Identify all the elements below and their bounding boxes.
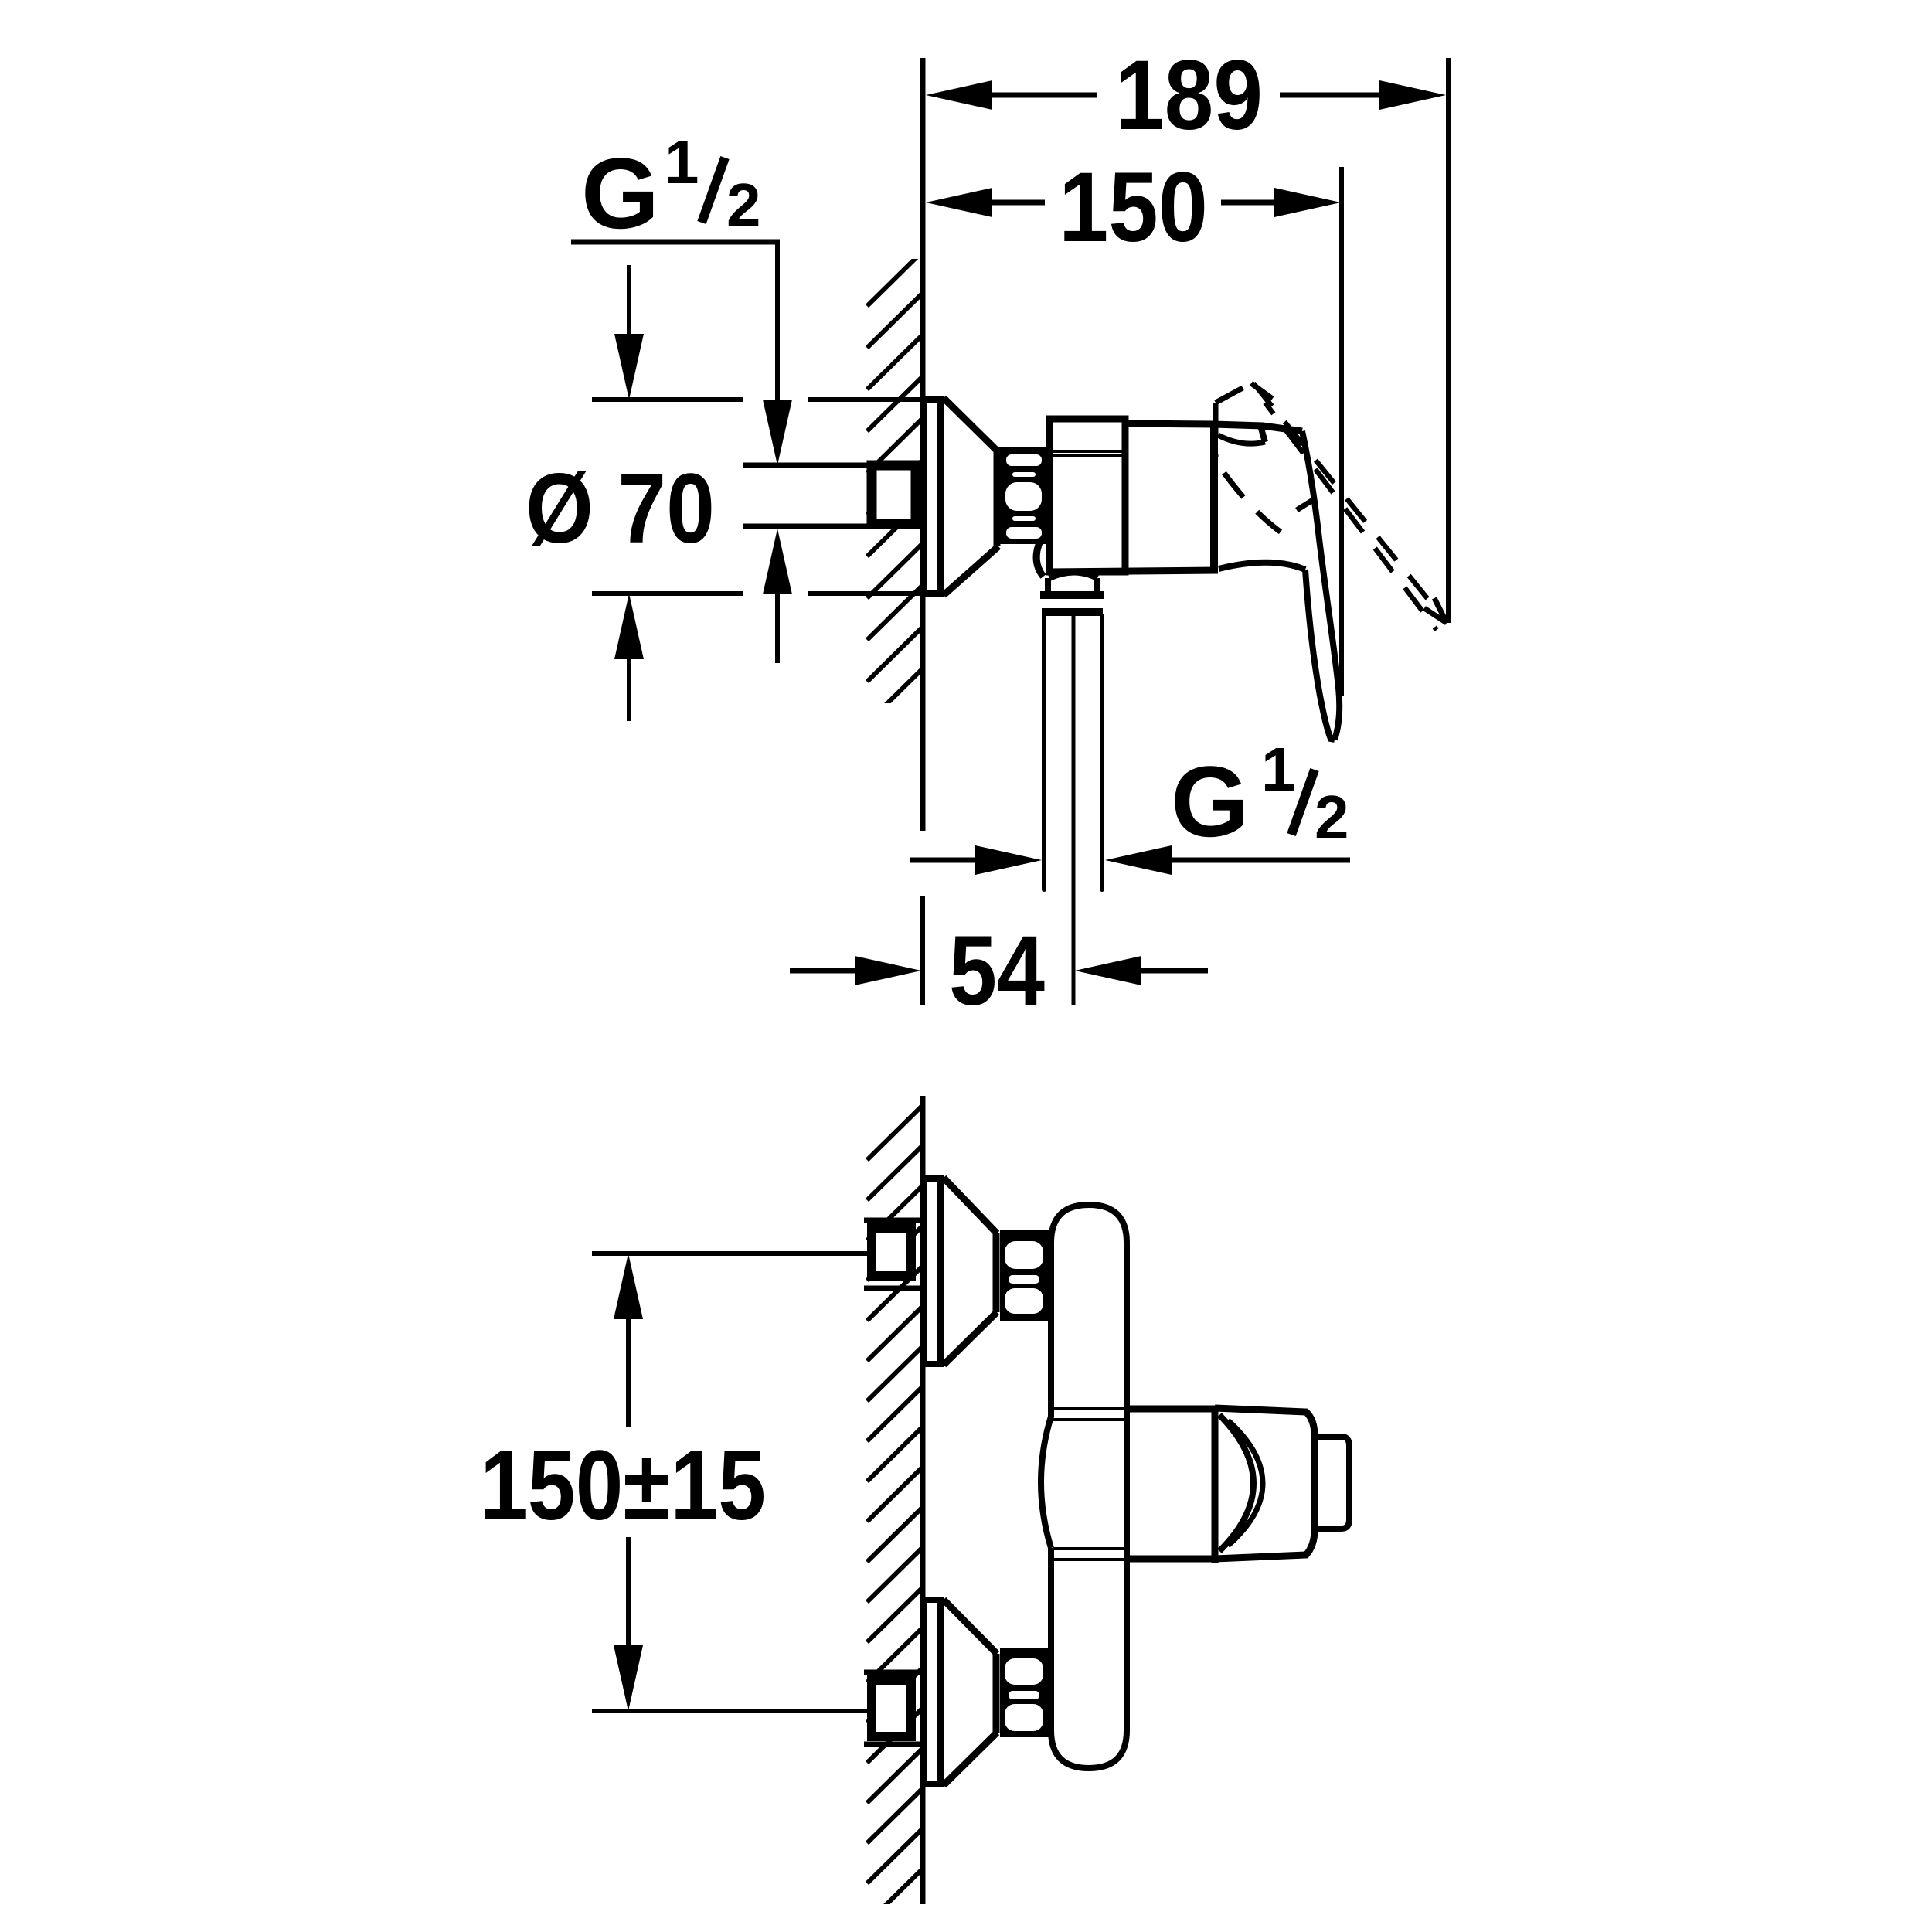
svg-text:2: 2 bbox=[1315, 783, 1349, 852]
svg-text:150: 150 bbox=[1059, 152, 1208, 263]
svg-text:54: 54 bbox=[949, 916, 1045, 1026]
svg-text:189: 189 bbox=[1115, 40, 1263, 151]
svg-text:1: 1 bbox=[1261, 735, 1296, 804]
svg-text:150±15: 150±15 bbox=[480, 1430, 766, 1541]
svg-text:1: 1 bbox=[665, 128, 699, 196]
svg-text:Ø 70: Ø 70 bbox=[526, 454, 715, 564]
svg-text:G: G bbox=[581, 137, 659, 250]
svg-text:2: 2 bbox=[726, 171, 761, 240]
svg-text:G: G bbox=[1171, 745, 1249, 858]
